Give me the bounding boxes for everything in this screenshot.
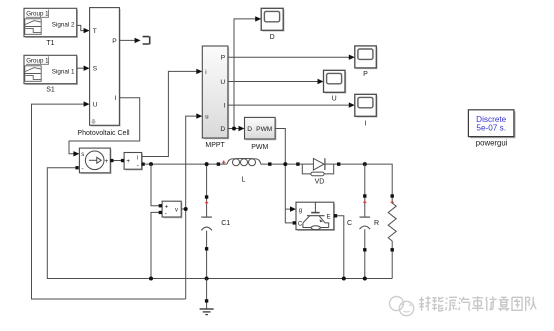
capacitor C1 [201,164,230,278]
signal builder T1 [24,8,78,47]
wire PWM out to IGBT g and collector branch [275,129,293,223]
svg-text:Group 1: Group 1 [26,57,49,64]
svg-text:S1: S1 [46,86,55,93]
subsystem Photovoltaic Cell [77,8,130,138]
wire source+ to i-meter [114,160,123,162]
svg-text:P: P [112,38,117,45]
svg-text:U: U [332,96,337,103]
svg-text:D: D [270,34,275,41]
svg-text:v: v [175,208,178,214]
svg-text:T: T [93,28,97,35]
svg-text:Group 1: Group 1 [26,10,49,17]
svg-text:Photovoltaic Cell: Photovoltaic Cell [77,130,130,137]
port square v - [159,211,162,214]
svg-text:Signal 1: Signal 1 [52,69,75,76]
wire top rail (i-meter to C1 to L) [145,163,219,165]
subsystem PWM [245,117,277,151]
node D branch [232,127,236,131]
wire MPPT P to scope P [228,56,351,58]
svg-text:MPPT: MPPT [205,142,225,149]
svg-text:P: P [363,71,368,78]
svg-text:L: L [242,176,246,183]
signal builder S1 [24,55,78,93]
scope U [324,70,347,102]
watermark logo [390,297,414,316]
resistor R [374,194,396,278]
subsystem MPPT [202,46,229,149]
svg-text:S: S [93,66,98,73]
svg-text:E: E [327,214,331,220]
svg-text:I: I [365,121,367,128]
svg-text:i: i [137,155,138,161]
svg-text:VD: VD [315,178,325,185]
node bottom rail joints [149,277,153,281]
svg-text:Signal 2: Signal 2 [52,22,75,29]
svg-text:D: D [220,126,225,133]
svg-text:5e-07 s.: 5e-07 s. [476,123,506,132]
svg-text:+: + [165,203,169,210]
svg-text:C: C [298,221,303,227]
current measurement i [124,153,143,171]
wire I loop to current source s [69,98,140,154]
scope I [355,94,378,127]
svg-text:i: i [205,70,206,76]
IGBT switch [296,202,335,231]
node v out [184,207,188,211]
svg-text:C1: C1 [221,220,230,227]
svg-text:s: s [81,152,84,158]
svg-text:I: I [223,103,225,110]
svg-text:PWM: PWM [251,144,268,151]
wire MPPT I to scope I [228,104,351,106]
svg-text:-: - [82,165,84,172]
controlled current source [79,148,111,174]
node top rail C1 [205,162,209,166]
svg-text:I: I [115,95,117,102]
port square current source + [110,159,113,162]
port square IGBT C [293,221,296,224]
port square i-meter right - [142,163,145,166]
node C branch top [363,162,367,166]
wire MPPT U to scope U [228,81,319,83]
capacitor C [347,164,370,278]
svg-text:-: - [165,211,167,218]
svg-text:u: u [205,115,208,121]
wire T1 to T [77,25,85,30]
svg-text:P: P [221,55,226,62]
svg-text:T1: T1 [46,40,54,47]
wire L to diode with IGBT branch node [272,163,298,165]
scope P [355,46,378,78]
wire diode to C and R [340,164,392,196]
svg-text:+: + [126,158,130,165]
wire source- to bottom rail [47,168,392,279]
wire P to terminator [119,39,136,41]
wire to v+ [151,164,160,206]
wire MPPT D to PWM and scope D [228,128,240,130]
port square v + [159,204,162,207]
scope D [261,8,284,41]
wire S1 to S [77,67,85,69]
wire i signal to MPPT i [142,71,198,156]
watermark text [419,296,431,311]
svg-text:g: g [299,208,302,214]
port square current source - [75,166,78,169]
wire IGBT E to bottom rail [337,216,344,279]
svg-text:U: U [93,102,98,109]
svg-text:D: D [247,126,252,133]
ground [200,279,214,315]
svg-text:R: R [374,220,379,227]
wire v output feedback [181,116,198,299]
wire U feedback (left outer loop) [32,104,186,299]
node IGBT collector branch [283,162,287,166]
svg-text:powergui: powergui [476,139,508,148]
node v+ branch [149,162,153,166]
diode VD [296,158,340,185]
svg-text:-: - [137,162,139,169]
svg-text:U: U [220,79,225,86]
svg-text:+: + [105,158,109,165]
powergui block [468,110,515,148]
wire v- to bottom rail [151,212,160,278]
svg-text:PWM: PWM [256,126,272,133]
terminator on P [143,36,150,44]
port square IGBT E [334,214,337,217]
svg-text:C: C [347,220,352,227]
inductor L [217,158,272,183]
voltage measurement v [162,201,182,218]
port square i-meter left [121,159,124,162]
